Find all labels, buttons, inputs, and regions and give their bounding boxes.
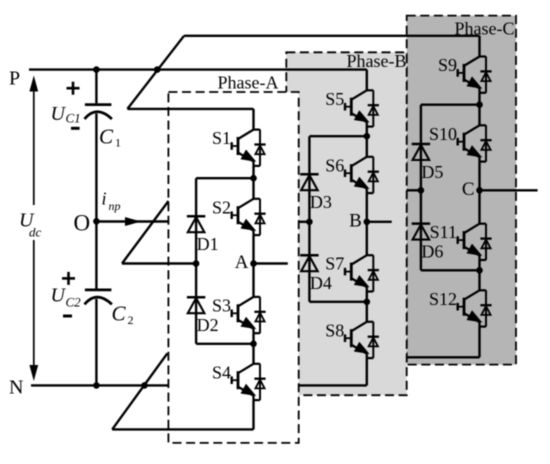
svg-text:C1: C1 bbox=[66, 111, 81, 126]
transistor S3 (IGBT with antiparallel diode) bbox=[232, 297, 266, 333]
node junction lower A bbox=[250, 341, 257, 348]
Udc measuring arrow bbox=[29, 76, 38, 382]
svg-text:np: np bbox=[109, 199, 121, 213]
svg-text:S10: S10 bbox=[429, 124, 457, 144]
svg-text:S12: S12 bbox=[429, 289, 457, 309]
svg-text:S2: S2 bbox=[212, 197, 231, 217]
wire top feed to Phase-C bbox=[184, 35, 480, 37]
transistor S6 (IGBT with antiparallel diode) bbox=[345, 157, 379, 193]
node clamp midpoint B bbox=[306, 219, 313, 226]
wire clamp top link C bbox=[421, 103, 480, 105]
node clamp midpoint C bbox=[418, 187, 425, 194]
wire A-branch vertical 2 bbox=[252, 166, 254, 199]
wire A output stub bbox=[254, 262, 288, 264]
svg-text:S9: S9 bbox=[438, 55, 457, 75]
diode D3 (clamp) bbox=[300, 174, 318, 190]
svg-text:dc: dc bbox=[29, 225, 42, 240]
i_np arrowhead bbox=[125, 217, 141, 226]
transistor S9 (IGBT with antiparallel diode) bbox=[458, 57, 492, 93]
wire C2 to N bbox=[95, 299, 97, 386]
svg-text:S4: S4 bbox=[212, 362, 231, 382]
svg-text:S8: S8 bbox=[325, 320, 344, 340]
svg-text:C: C bbox=[99, 125, 114, 149]
diode D4 (clamp) bbox=[300, 255, 318, 271]
transistor S1 (IGBT with antiparallel diode) bbox=[232, 130, 266, 166]
transistor S2 (IGBT with antiparallel diode) bbox=[232, 199, 266, 235]
svg-text:i: i bbox=[102, 189, 107, 209]
svg-text:S3: S3 bbox=[212, 295, 231, 315]
svg-text:Phase-B: Phase-B bbox=[347, 51, 407, 71]
wire O stub into phase C bbox=[407, 189, 421, 191]
wire C-branch vertical 2 bbox=[478, 93, 480, 126]
wire A-branch vertical 5 bbox=[252, 400, 254, 429]
svg-text:D2: D2 bbox=[197, 315, 219, 335]
node N dot at C2 bbox=[93, 382, 100, 389]
svg-text:B: B bbox=[349, 210, 362, 231]
wire N rail bbox=[31, 384, 168, 386]
wire N diagonal riser bbox=[112, 353, 167, 429]
wire clamp vertical C bbox=[420, 105, 422, 271]
wire clamp bottom link B bbox=[309, 301, 366, 303]
wire B-branch vertical 3 bbox=[366, 193, 368, 255]
svg-text:D6: D6 bbox=[421, 242, 443, 262]
wire O to D1D2 midpoint bbox=[122, 262, 196, 264]
wire clamp top link A bbox=[196, 177, 253, 179]
svg-text:N: N bbox=[9, 377, 23, 399]
svg-text:S5: S5 bbox=[325, 89, 344, 109]
svg-text:U: U bbox=[51, 285, 67, 307]
node C output bbox=[476, 187, 483, 194]
C2 minus sign bbox=[63, 315, 72, 318]
node A output bbox=[250, 260, 257, 267]
wire B-branch vertical 1 bbox=[366, 70, 368, 91]
wire C-branch vertical 4 bbox=[478, 260, 480, 290]
wire A-branch vertical 4 bbox=[252, 333, 254, 364]
svg-text:S6: S6 bbox=[325, 155, 344, 175]
wire A-branch vertical 3 bbox=[252, 235, 254, 297]
wire B-branch vertical 2 bbox=[366, 127, 368, 157]
wire top feed to Phase-A bbox=[127, 108, 253, 110]
wire C-branch vertical 1 bbox=[478, 36, 480, 57]
svg-text:S7: S7 bbox=[325, 254, 344, 274]
svg-text:D5: D5 bbox=[421, 162, 443, 182]
wire B-branch vertical 4 bbox=[366, 292, 368, 322]
wire C1 to C2 through O bbox=[95, 114, 97, 289]
wire clamp bottom link C bbox=[421, 269, 480, 271]
transistor S5 (IGBT with antiparallel diode) bbox=[345, 90, 379, 126]
svg-text:C2: C2 bbox=[66, 295, 82, 310]
svg-text:A: A bbox=[235, 252, 249, 273]
node junction lower B bbox=[364, 299, 371, 306]
transistor S8 (IGBT with antiparallel diode) bbox=[345, 322, 379, 358]
transistor S10 (IGBT with antiparallel diode) bbox=[458, 125, 492, 161]
wire C output stub bbox=[480, 189, 538, 191]
diode D2 (clamp) bbox=[187, 297, 205, 313]
svg-text:S11: S11 bbox=[430, 222, 457, 242]
node N dot at diagonal bbox=[141, 382, 148, 389]
svg-text:P: P bbox=[9, 68, 20, 90]
node junction upper B bbox=[364, 133, 371, 140]
wire clamp vertical A bbox=[195, 178, 197, 344]
wire A-branch vertical 1 bbox=[252, 109, 254, 130]
wire clamp top link B bbox=[309, 135, 366, 137]
Phase-B dashed box bbox=[286, 52, 406, 395]
wire P rail bbox=[29, 68, 367, 70]
wire C-branch vertical 3 bbox=[478, 162, 480, 224]
svg-text:O: O bbox=[74, 211, 91, 236]
wire phase B bottom bbox=[299, 384, 367, 386]
wire O neutral line bbox=[96, 220, 168, 222]
wire B output stub bbox=[367, 221, 392, 223]
wire B-branch vertical 5 bbox=[366, 358, 368, 385]
node junction upper A bbox=[250, 175, 257, 182]
wire C1 top lead bbox=[95, 70, 97, 104]
diode D6 (clamp) bbox=[412, 224, 430, 240]
wire C-branch vertical 5 bbox=[478, 327, 480, 358]
transistor S4 (IGBT with antiparallel diode) bbox=[232, 364, 266, 400]
wire P diagonal riser bbox=[127, 36, 184, 109]
node B output bbox=[364, 219, 371, 226]
node P dot at C1 branch bbox=[93, 66, 100, 73]
wire Phase-A bottom bbox=[112, 428, 253, 430]
capacitor C1 bbox=[85, 105, 112, 119]
node junction lower C bbox=[476, 267, 483, 274]
svg-text:D3: D3 bbox=[310, 192, 332, 212]
wire clamp bottom link A bbox=[196, 343, 253, 345]
svg-text:U: U bbox=[51, 103, 67, 125]
wire O stub into phase B bbox=[299, 221, 310, 223]
wire clamp vertical B bbox=[308, 136, 310, 302]
diode D1 (clamp) bbox=[187, 216, 205, 232]
diode D5 (clamp) bbox=[412, 144, 430, 160]
svg-text:C: C bbox=[462, 179, 475, 200]
svg-text:D1: D1 bbox=[197, 234, 219, 254]
wire O diagonal riser bbox=[122, 201, 169, 264]
wire phase C bottom bbox=[407, 356, 480, 358]
node clamp midpoint A bbox=[193, 260, 200, 267]
node P dot at diagonal bbox=[154, 66, 161, 73]
svg-text:D4: D4 bbox=[310, 273, 332, 293]
svg-text:2: 2 bbox=[128, 313, 134, 327]
svg-text:C: C bbox=[112, 302, 127, 326]
Phase-A dashed box bbox=[168, 92, 298, 443]
svg-text:Phase-A: Phase-A bbox=[218, 73, 279, 93]
transistor S7 (IGBT with antiparallel diode) bbox=[345, 255, 379, 291]
C1 minus sign bbox=[71, 127, 80, 130]
node junction upper C bbox=[476, 101, 483, 108]
transistor S12 (IGBT with antiparallel diode) bbox=[458, 290, 492, 326]
node O bbox=[93, 218, 100, 225]
Phase-C dashed box bbox=[407, 16, 516, 365]
C2 plus sign bbox=[62, 272, 75, 285]
svg-text:1: 1 bbox=[115, 136, 121, 150]
capacitor C2 bbox=[85, 290, 112, 305]
C1 plus sign bbox=[67, 82, 80, 95]
transistor S11 (IGBT with antiparallel diode) bbox=[458, 224, 492, 260]
svg-text:S1: S1 bbox=[212, 128, 231, 148]
